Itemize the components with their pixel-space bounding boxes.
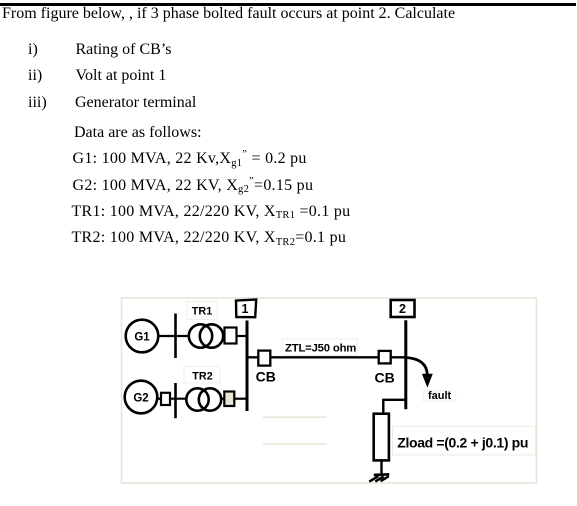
item iii xyxy=(28,95,47,111)
wire TR1 to box xyxy=(223,335,225,337)
wire box to bus 1 lower xyxy=(234,398,246,400)
fault arrow xyxy=(406,358,433,388)
svg-text:TR1: TR1 xyxy=(192,306,212,318)
svg-text:CB: CB xyxy=(256,369,276,385)
item ii xyxy=(28,68,42,84)
wire G1 to TR1 xyxy=(159,335,191,337)
label TR1 xyxy=(187,302,217,320)
wire TR2 to box xyxy=(221,398,225,400)
label TR2 xyxy=(184,367,220,384)
node tick bus G2 xyxy=(174,383,177,418)
svg-text:TR2: TR2 xyxy=(192,371,212,383)
label Zload xyxy=(393,426,536,455)
item i xyxy=(28,42,38,58)
wire box to bus 1 xyxy=(237,335,247,337)
svg-text:Zload =(0.2 + j0.1) pu: Zload =(0.2 + j0.1) pu xyxy=(397,434,528,450)
transformer TR1 xyxy=(189,324,223,347)
faint line B xyxy=(263,443,327,445)
bus 2 xyxy=(404,320,407,409)
bus 1 xyxy=(246,321,249,412)
generator G1 xyxy=(126,320,159,353)
transformer TR2 xyxy=(186,388,221,410)
wire load to ground xyxy=(380,460,382,474)
wire G2 to box xyxy=(157,398,162,400)
svg-text:2: 2 xyxy=(399,302,406,316)
faint line A xyxy=(263,416,327,418)
breaker CB2 xyxy=(379,351,391,364)
figure frame xyxy=(122,298,537,483)
TR2 data xyxy=(72,230,347,248)
G2 data xyxy=(73,178,314,196)
node tick bus G1 xyxy=(174,314,177,359)
generator G2 xyxy=(125,381,158,414)
node 2 label box xyxy=(391,300,415,317)
label ZTL xyxy=(282,339,357,355)
ground xyxy=(369,474,389,481)
top rule xyxy=(0,3,576,5)
svg-text:G1: G1 xyxy=(134,332,150,344)
svg-text:G2: G2 xyxy=(133,393,148,405)
label fault xyxy=(423,390,456,402)
wire box to TR2 xyxy=(170,398,188,400)
wire bus 2 to load xyxy=(383,400,406,414)
breaker box TR1 xyxy=(225,328,237,344)
svg-text:fault: fault xyxy=(428,390,452,402)
breaker box TR2 shaded xyxy=(224,392,234,407)
svg-text:1: 1 xyxy=(242,302,249,316)
breaker CB1 xyxy=(258,351,270,366)
breaker box G2 xyxy=(161,393,170,405)
TR1 data xyxy=(72,204,351,222)
load Zload xyxy=(374,414,389,461)
transmission line wire xyxy=(247,356,407,358)
G1 data xyxy=(73,151,307,169)
svg-text:ZTL=J50 ohm: ZTL=J50 ohm xyxy=(285,342,356,354)
svg-text:CB: CB xyxy=(375,370,395,386)
question line xyxy=(2,6,455,22)
data heading xyxy=(74,125,202,141)
node 1 label box xyxy=(236,300,256,318)
